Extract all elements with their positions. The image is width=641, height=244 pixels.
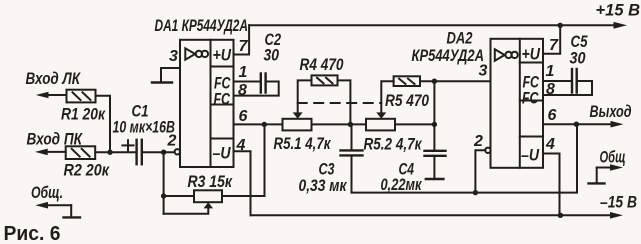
wire +15V top rail [249, 22, 627, 29]
node junction R3 left [161, 193, 166, 198]
svg-text:R5 470: R5 470 [385, 91, 429, 110]
ground at C4 bottom [426, 178, 444, 180]
svg-text:+U: +U [213, 46, 232, 65]
svg-text:FC: FC [214, 90, 231, 109]
wire R5 right to DA2 pin 3 [420, 80, 491, 82]
label DA1 КР544УД2А [155, 16, 249, 35]
wire C1 to DA1 pin 2 [143, 151, 175, 153]
pin number 6 of DA2 [548, 107, 557, 124]
label Общ left [31, 183, 63, 202]
wire node to R3 left terminal [164, 195, 194, 197]
pin number 2 of DA2 [473, 133, 483, 150]
resistor R3 trimmer body [194, 190, 222, 202]
wire DA1 pin 3 to ground [161, 68, 180, 82]
svg-text:Общ.: Общ. [31, 183, 63, 202]
resistor R5.2 potentiometer body [366, 119, 395, 131]
wire -15V bottom rail [251, 212, 624, 219]
common arrow right with ground [589, 164, 624, 183]
pin number 8 of DA1 [238, 82, 247, 99]
svg-text:R5.1 4,7к: R5.1 4,7к [274, 134, 332, 153]
svg-text:3: 3 [169, 48, 178, 65]
label C4 [399, 160, 415, 179]
pin number 3 of DA1 [169, 48, 178, 65]
svg-text:КР544УД2А: КР544УД2А [412, 46, 485, 65]
dashed mechanical link of dual potentiometer [298, 102, 382, 104]
inverting input circle DA1 pin 2 [175, 149, 180, 154]
pin number 6 of DA1 [239, 108, 248, 125]
R3 wiper arrow and return wire [164, 202, 214, 214]
label КР544УД2А [412, 46, 485, 65]
node junction input summing [107, 150, 112, 155]
wire R2 to C1 [95, 151, 136, 153]
resistor R1 [67, 90, 96, 103]
svg-text:1: 1 [239, 64, 248, 81]
wire R4 right down to node A [338, 80, 351, 124]
wire DA1 pin 4 to -15V rail [234, 151, 251, 215]
capacitor C2 loop between pins 1 and 8 [234, 74, 279, 96]
resistor R2 [66, 146, 96, 159]
svg-text:0,33 мк: 0,33 мк [299, 176, 348, 195]
label C5 [570, 32, 588, 68]
node junction DA1 output feedback [262, 122, 267, 127]
svg-text:FC: FC [522, 89, 539, 108]
svg-text:Рис. 6: Рис. 6 [4, 222, 61, 244]
svg-text:DA1 КР544УД2А: DA1 КР544УД2А [155, 16, 249, 35]
svg-text:7: 7 [549, 37, 559, 54]
wire R5.2 right to node B [395, 123, 434, 125]
svg-text:6: 6 [239, 108, 248, 125]
caption Рис. 6 [4, 222, 61, 244]
wire DA1 pin 7 to +15V rail [234, 25, 250, 54]
label 0,22мк [381, 175, 423, 194]
node junction DA2 pin2 riser on bus [473, 190, 478, 195]
op-amp DA1 body [180, 40, 234, 167]
pin number 8 of DA2 [546, 81, 555, 98]
label R5.2 4,7к [364, 135, 423, 154]
label C2 [264, 30, 282, 65]
svg-text:+15 В: +15 В [596, 1, 641, 20]
pin number 7 of DA2 [549, 37, 559, 54]
capacitor C5 loop between pins 1 and 8 of DA2 [543, 69, 592, 95]
svg-text:3: 3 [479, 63, 488, 80]
svg-text:7: 7 [239, 38, 249, 55]
node junction on +15V rail at DA2 pin7 riser [558, 23, 563, 28]
input arrow left channel [36, 92, 67, 99]
svg-text:–15 В: –15 В [600, 193, 637, 212]
svg-text:6: 6 [548, 107, 557, 124]
wire R3 right terminal up to DA1 output node [222, 124, 265, 196]
node junction R5 right [432, 79, 437, 84]
label Общ right [600, 148, 626, 167]
svg-text:Общ: Общ [600, 148, 626, 167]
resistor R5 [394, 76, 420, 86]
svg-text:R4 470: R4 470 [300, 55, 344, 74]
label DA2 [447, 29, 473, 48]
label Вход ЛК [26, 69, 82, 88]
pin number 7 of DA1 [239, 38, 249, 55]
svg-text:0,22мк: 0,22мк [381, 175, 423, 194]
wire DA2 pin 2 riser [475, 150, 485, 192]
svg-text:4: 4 [545, 136, 555, 153]
svg-text:30: 30 [570, 49, 586, 68]
svg-text:2: 2 [473, 133, 483, 150]
label 10 мк x 16В [113, 118, 176, 137]
capacitor C4 [425, 124, 446, 177]
svg-text:+U: +U [522, 45, 541, 64]
input arrow right channel [35, 149, 66, 156]
node junction A (R5.1/R5.2/C3/R4) [348, 122, 353, 127]
svg-text:R5.2 4,7к: R5.2 4,7к [364, 135, 423, 154]
ground at DA1 pin 3 [152, 81, 172, 83]
op-amp DA2 body [491, 39, 544, 168]
wire DA1 pin 6 output row to R5.1 [234, 123, 283, 125]
label R5 470 [385, 91, 429, 110]
label Вход ПК [27, 130, 84, 149]
svg-text:–U: –U [521, 146, 540, 165]
label C3 [319, 160, 335, 179]
wire feedback bus from C3 bottom to DA2 output [352, 124, 578, 192]
wire R1 right terminal down to input node [96, 96, 111, 152]
net label -15В [600, 193, 637, 212]
resistor R5.1 potentiometer body [283, 119, 312, 131]
svg-text:R1 20к: R1 20к [61, 105, 106, 124]
wire DA2 pin 7 to +15V rail [543, 25, 560, 53]
node junction DA2 output [574, 122, 579, 127]
pin number 4 of DA2 [545, 136, 555, 153]
svg-text:R2 20к: R2 20к [64, 161, 111, 180]
label R3 15к [188, 172, 234, 191]
pin number 2 of DA1 [167, 133, 177, 150]
wire R5.1 to R5.2 [312, 123, 367, 125]
label Выход [590, 102, 632, 121]
capacitor C1 polarized [122, 140, 141, 164]
common arrow left with ground [35, 202, 80, 218]
node junction on -15V rail at DA2 pin4 [558, 213, 563, 218]
label R2 20к [64, 161, 111, 180]
label R1 20к [61, 105, 106, 124]
label R4 470 [300, 55, 344, 74]
pin number 1 of DA2 [546, 63, 555, 80]
wire node R5-right down to node B [433, 81, 435, 124]
pin number 1 of DA1 [239, 64, 248, 81]
svg-text:–U: –U [213, 144, 232, 163]
resistor R4 [312, 75, 338, 85]
svg-text:Вход ЛК: Вход ЛК [26, 69, 82, 88]
svg-text:1: 1 [546, 63, 555, 80]
wire DA2 pin 6 to output arrow [543, 121, 624, 128]
capacitor C3 [341, 124, 363, 192]
label 0,33 мк [299, 176, 348, 195]
pin number 4 of DA1 [236, 137, 246, 154]
wire pin2 node down left vertical [163, 152, 165, 214]
net label +15В [596, 1, 641, 20]
wire DA2 pin 4 to -15V rail [543, 154, 560, 216]
svg-text:30: 30 [264, 46, 280, 65]
svg-text:R3 15к: R3 15к [188, 172, 234, 191]
svg-text:10 мк×16В: 10 мк×16В [113, 118, 176, 137]
label R5.1 4,7к [274, 134, 332, 153]
svg-text:DA2: DA2 [447, 29, 473, 48]
wire R5 left to R5.2 wiper arrow [376, 81, 393, 119]
svg-text:Выход: Выход [590, 102, 632, 121]
wire R4 left to R5.1 wiper arrow [293, 80, 312, 118]
node junction B (R5.2/C4/vert) [432, 122, 437, 127]
pin number 3 of DA2 [479, 63, 488, 80]
label C1 [132, 102, 149, 121]
node junction at DA1 pin 2 [161, 150, 166, 155]
inverting input circle DA2 pin 2 [485, 148, 490, 153]
